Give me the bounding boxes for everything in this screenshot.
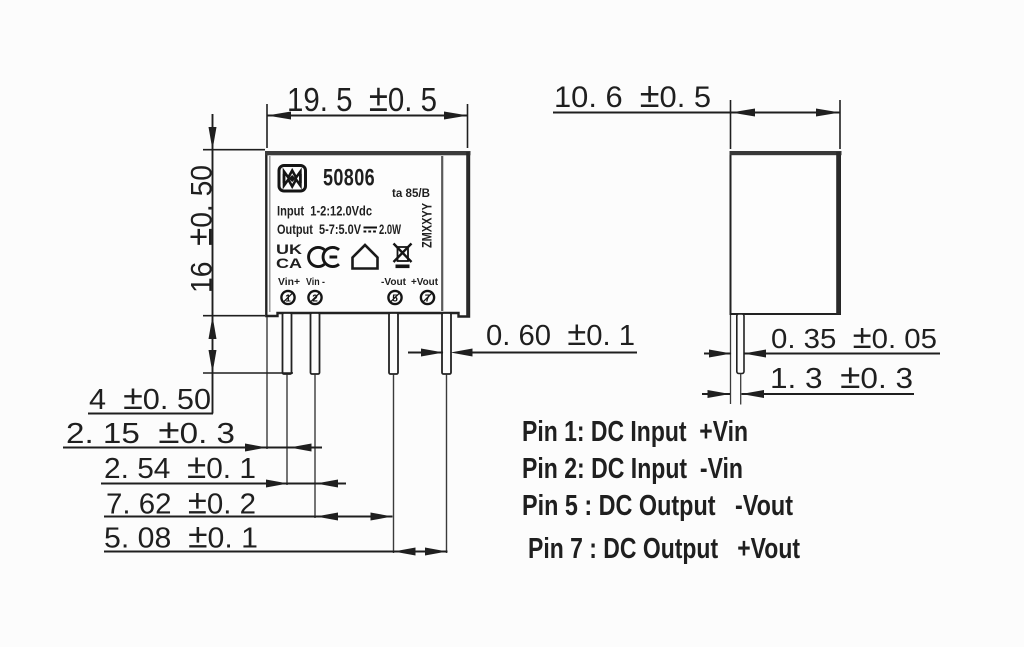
svg-text:2. 15 ±0. 3: 2. 15 ±0. 3: [66, 413, 235, 451]
svg-text:50806: 50806: [323, 165, 375, 192]
svg-text:Pin 1: DC Input +Vin: Pin 1: DC Input +Vin: [522, 416, 748, 448]
svg-text:2. 54 ±0. 1: 2. 54 ±0. 1: [104, 448, 256, 486]
svg-text:10. 6 ±0. 5: 10. 6 ±0. 5: [554, 76, 711, 115]
svg-text:16 ±0. 50: 16 ±0. 50: [181, 165, 220, 293]
svg-text:Input 1-2:12.0Vdc: Input 1-2:12.0Vdc: [277, 204, 372, 219]
svg-text:5. 08 ±0. 1: 5. 08 ±0. 1: [104, 518, 258, 556]
svg-text:+Vout: +Vout: [411, 276, 438, 288]
svg-text:4 ±0. 50: 4 ±0. 50: [89, 379, 211, 417]
svg-text:Pin 7 : DC Output +Vout: Pin 7 : DC Output +Vout: [528, 533, 800, 565]
svg-text:Output 5-7:5.0V: Output 5-7:5.0V: [277, 222, 361, 237]
svg-text:Pin 2: DC Input -Vin: Pin 2: DC Input -Vin: [522, 453, 743, 485]
svg-text:2.0W: 2.0W: [379, 222, 401, 237]
svg-text:19. 5 ±0. 5: 19. 5 ±0. 5: [287, 77, 437, 120]
svg-text:ta 85/B: ta 85/B: [392, 186, 430, 200]
svg-text:Vin -: Vin -: [306, 276, 325, 288]
svg-text:Pin 5 : DC Output -Vout: Pin 5 : DC Output -Vout: [522, 490, 793, 522]
svg-text:0. 35 ±0. 05: 0. 35 ±0. 05: [771, 318, 937, 355]
svg-text:Vin+: Vin+: [278, 276, 300, 288]
svg-text:1. 3 ±0. 3: 1. 3 ±0. 3: [770, 358, 913, 396]
svg-text:ZMXXYY: ZMXXYY: [419, 202, 435, 248]
svg-text:-Vout: -Vout: [381, 276, 406, 288]
svg-text:0. 60 ±0. 1: 0. 60 ±0. 1: [486, 315, 635, 353]
svg-text:CA: CA: [276, 255, 302, 271]
